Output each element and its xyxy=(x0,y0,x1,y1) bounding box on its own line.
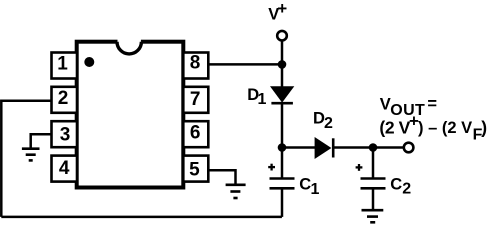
svg-text:3: 3 xyxy=(60,124,71,145)
diode D1 xyxy=(270,86,294,103)
svg-text:8: 8 xyxy=(190,52,201,73)
wire pin 2 to bottom rail xyxy=(1,101,52,217)
wire pin 8 to V+ node xyxy=(208,63,283,66)
svg-text:2: 2 xyxy=(58,88,69,109)
label C2 xyxy=(390,176,411,198)
terminal V+ xyxy=(277,31,287,41)
label D2 xyxy=(313,109,333,132)
wire pin 3 to ground xyxy=(31,134,53,148)
svg-text:6: 6 xyxy=(190,123,201,144)
svg-text:1: 1 xyxy=(57,54,68,75)
pin 8 box xyxy=(183,52,208,78)
pin 4 box xyxy=(52,156,78,182)
junction node V+/pin8 xyxy=(278,60,287,69)
IC notch xyxy=(117,39,141,54)
pin 2 box xyxy=(52,87,78,113)
label VOUT = (2 V+) - (2 VF) xyxy=(379,95,487,144)
wire D1 to node A xyxy=(281,103,284,147)
junction output node xyxy=(369,143,378,152)
svg-text:5: 5 xyxy=(189,160,200,181)
bottom rail wire xyxy=(1,216,282,219)
pin 5 box xyxy=(183,156,208,182)
svg-text:C: C xyxy=(390,176,402,194)
capacitor C2 xyxy=(361,148,386,189)
label C1 xyxy=(299,176,319,198)
svg-text:+: + xyxy=(277,0,287,18)
wire V+ terminal to D1 xyxy=(281,41,284,88)
pin 7 box xyxy=(183,87,208,113)
svg-text:2: 2 xyxy=(402,181,411,198)
junction node A (D1/D2/C1) xyxy=(278,143,287,152)
ground GND3 (C2) xyxy=(362,210,384,222)
svg-text:V: V xyxy=(380,96,391,114)
wire node A to D2 xyxy=(282,146,315,149)
svg-text:4: 4 xyxy=(59,158,70,179)
svg-text:2: 2 xyxy=(324,115,333,132)
wire output node to terminal xyxy=(373,146,404,149)
pin-1 marker dot xyxy=(84,57,94,67)
svg-text:7: 7 xyxy=(190,89,201,110)
svg-text:(2 V: (2 V xyxy=(379,117,410,137)
svg-text:) – (2 V: ) – (2 V xyxy=(418,119,472,137)
wire C2 to ground xyxy=(372,188,375,209)
label V+ xyxy=(268,0,287,23)
IC U1 body xyxy=(77,42,184,188)
wire pin 5 to ground xyxy=(208,170,236,184)
ground GND1 (pin 3) xyxy=(22,149,40,161)
pin 1 box xyxy=(52,53,78,79)
ground GND2 (pin 5) xyxy=(226,185,246,198)
plus sign C2 xyxy=(356,164,363,171)
wire D2 to output node xyxy=(333,146,373,149)
terminal VOUT xyxy=(404,143,414,153)
pin 3 box xyxy=(52,121,78,147)
svg-text:=: = xyxy=(427,95,437,113)
pin 6 box xyxy=(183,121,208,147)
plus sign C1 xyxy=(268,164,275,171)
svg-text:1: 1 xyxy=(311,181,320,198)
svg-text:): ) xyxy=(481,117,487,137)
label D1 xyxy=(247,86,266,108)
diode D2 xyxy=(315,137,334,159)
svg-text:C: C xyxy=(299,176,311,194)
svg-text:1: 1 xyxy=(258,91,267,108)
capacitor C1 xyxy=(270,148,295,217)
